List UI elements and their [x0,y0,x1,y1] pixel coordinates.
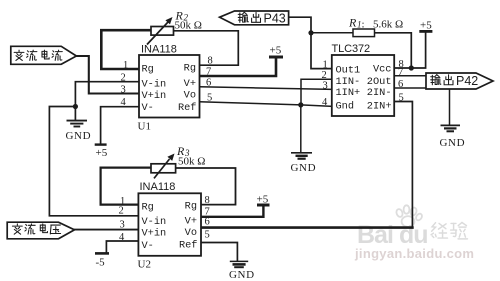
svg-text:Rg: Rg [142,64,154,76]
svg-text:INA118: INA118 [140,181,176,193]
svg-text:5.6k Ω: 5.6k Ω [373,19,403,31]
svg-text:50k Ω: 50k Ω [175,19,202,31]
svg-text:6: 6 [398,79,403,90]
svg-text:3: 3 [120,220,125,231]
svg-text:Gnd: Gnd [336,100,355,112]
svg-text:GND: GND [66,130,92,142]
svg-text:GND: GND [291,162,317,174]
svg-text:V+: V+ [184,78,196,90]
svg-text:P42: P42 [456,74,478,88]
svg-text:+5: +5 [96,147,108,159]
svg-text:TLC372: TLC372 [332,43,371,55]
svg-text:8: 8 [205,195,210,206]
svg-text:V-: V- [142,102,154,114]
svg-text:P43: P43 [264,12,286,26]
svg-text:V-in: V-in [142,216,167,228]
svg-text:4: 4 [119,232,125,243]
svg-text:INA118: INA118 [141,44,177,56]
svg-text:2IN-: 2IN- [367,87,392,99]
svg-text:V+in: V+in [142,228,167,240]
svg-text:V-: V- [142,240,154,252]
svg-text:+5: +5 [270,45,282,57]
svg-text:Vo: Vo [184,90,196,102]
svg-text:GND: GND [440,137,466,149]
svg-text:GND: GND [229,269,255,281]
svg-text:U1: U1 [138,121,151,133]
svg-text:+5: +5 [257,193,269,205]
svg-text:5: 5 [205,230,210,241]
svg-text:6: 6 [206,77,211,88]
svg-text:1: 1 [123,60,128,71]
svg-text:2: 2 [322,70,327,81]
svg-text:Out1: Out1 [336,65,361,77]
svg-text:2: 2 [119,206,124,217]
svg-text:U2: U2 [138,259,151,271]
svg-text:5: 5 [207,93,212,104]
svg-text:+5: +5 [420,19,432,31]
svg-text:5: 5 [399,92,404,103]
svg-text:7: 7 [205,206,210,217]
svg-text:2Out: 2Out [367,76,392,88]
svg-text:3: 3 [121,85,126,96]
svg-text:Rg: Rg [184,63,196,75]
svg-text:1: 1 [323,60,328,71]
svg-text:4: 4 [322,97,328,108]
svg-text:3: 3 [323,81,328,92]
svg-text:2IN+: 2IN+ [367,100,392,112]
svg-text::: : [362,19,365,31]
svg-text:R: R [348,16,357,30]
svg-text:jingyan.baidu.com: jingyan.baidu.com [354,246,474,261]
svg-text:2: 2 [121,73,126,84]
svg-text:Ref: Ref [179,240,198,252]
svg-text:50k Ω: 50k Ω [178,155,205,167]
svg-text:4: 4 [121,97,127,108]
svg-text:7: 7 [206,67,211,78]
svg-text:Ref: Ref [178,102,197,114]
svg-text:-5: -5 [96,257,106,269]
svg-text:8: 8 [208,56,213,67]
svg-text:V+in: V+in [142,90,167,102]
svg-text:Bai: Bai [357,221,393,249]
svg-text:1IN+: 1IN+ [336,87,361,99]
svg-text:Vo: Vo [185,227,197,239]
svg-text:Rg: Rg [142,202,154,214]
svg-text:6: 6 [205,217,210,228]
svg-text:V-in: V-in [142,78,167,90]
svg-text:Vcc: Vcc [373,64,392,76]
svg-text:7: 7 [398,67,403,78]
svg-text:V+: V+ [185,216,197,228]
svg-text:1IN-: 1IN- [336,76,361,88]
svg-text:Rg: Rg [185,201,197,213]
